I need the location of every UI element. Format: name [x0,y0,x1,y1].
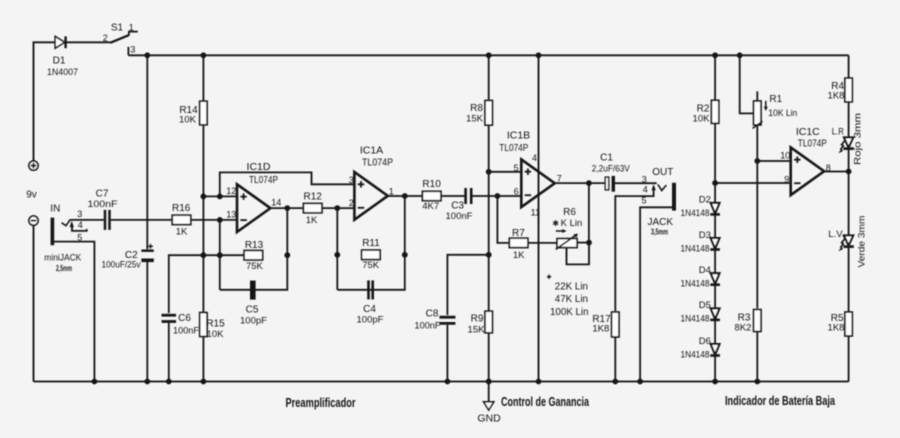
svg-text:R11: R11 [362,238,380,249]
svg-text:C3: C3 [451,201,464,212]
top supply bus wire [128,54,848,56]
svg-text:D1: D1 [53,56,66,67]
svg-text:75K: 75K [246,261,264,272]
svg-text:100nF: 100nF [88,199,118,210]
svg-text:IC1A: IC1A [360,145,383,157]
svg-text:Rojo 3mm: Rojo 3mm [853,113,864,165]
wire out jack pin5 to ground bus [640,207,672,381]
potentiometer R6 [556,234,578,250]
svg-text:C7: C7 [96,189,109,200]
svg-text:1K8: 1K8 [592,324,609,335]
svg-text:TL074P: TL074P [249,174,278,186]
svg-text:1N4148: 1N4148 [681,208,710,218]
wire IC1C output to LED rail [824,171,849,173]
junction C8 on ground bus [445,379,451,385]
junction R1/R3 at IC1C pin 10 [754,158,760,164]
junction R2 at IC1C pin 9 [712,180,718,186]
svg-text:R12: R12 [304,192,323,203]
junction C2 rail on ground bus [144,379,150,385]
svg-text:C8: C8 [426,309,439,320]
LED LV green [838,235,854,251]
svg-text:R8: R8 [470,103,483,114]
svg-text:2,2uF/63V: 2,2uF/63V [592,163,631,174]
capacitor C5 [250,281,256,300]
wire D2 to D3 [714,214,716,239]
wire D3 to D4 [714,249,716,274]
junction GND stub on bus [486,379,492,385]
bias bracket wire to IC1A pin 3 [220,172,355,196]
diode D6 [711,344,720,355]
svg-text:3: 3 [642,174,647,184]
diode D1 [55,36,65,48]
LED LR red [838,137,854,153]
svg-text:Indicador de Batería Baja: Indicador de Batería Baja [725,394,836,408]
diode D2 [711,203,720,214]
svg-text:IN: IN [50,203,60,214]
junction on top bus at IC1B rail [536,52,542,58]
capacitor C1 (polarized) [605,176,615,192]
svg-text:5: 5 [514,163,519,173]
resistor R5 [845,312,852,336]
junction signal to feedback drop [217,217,223,223]
wire D5 to D6 [714,319,716,344]
junction diode chain on ground bus [712,379,718,385]
svg-text:miniJACK: miniJACK [44,253,82,264]
svg-text:8K2: 8K2 [735,323,752,334]
wire +9V rail to C2 [146,55,148,249]
junction R13 right at output drop [284,252,290,258]
resistor R16 [172,215,191,224]
wire IC1A output to R10 [388,195,423,197]
wire D4 to D5 [714,284,716,309]
wire R1 wiper from top bus [740,55,754,113]
wire battery - terminal down to ground bus [33,225,35,381]
feedback drop wire pin2 to R11/C4 [336,208,338,290]
svg-text:GND: GND [477,413,501,425]
switch S1 pin 1 contact [129,32,138,36]
junction pin6 to R7 drop [495,193,501,199]
wire jack pin 3 to C7 [70,219,104,221]
svg-text:D5: D5 [699,300,711,311]
svg-text:TL074P: TL074P [499,142,528,154]
wire IC1B pin 5 from bias rail [489,171,522,173]
svg-text:1K: 1K [176,227,188,238]
resistor R10 [422,191,441,200]
svg-text:D3: D3 [699,230,711,241]
resistor R2 [711,100,718,123]
battery negative terminal [29,216,38,225]
svg-text:C5: C5 [246,305,259,316]
svg-text:1K: 1K [513,250,525,261]
svg-text:100nF: 100nF [173,326,199,337]
diode D5 [711,308,720,319]
resistor R3 [754,310,761,332]
svg-text:R10: R10 [422,179,441,190]
wire R6 wiper loop [567,243,590,265]
junction IC1B rail on ground bus [536,379,542,385]
junction bias rail at IC1B pin 5 [486,169,492,175]
right rail wire from top bus [848,55,850,137]
svg-text:OUT: OUT [652,167,673,178]
wire R12 to IC1A pin 2 [322,207,355,209]
svg-text:7: 7 [557,174,562,184]
wire bias rail from top bus down to R15 [202,55,204,312]
wire C7 to R16 [111,219,173,221]
junction out jack sleeve on ground bus [637,379,643,385]
svg-text:100K Lin: 100K Lin [550,307,589,318]
junction bias rail at C8 branch [486,252,492,258]
svg-text:10K: 10K [693,114,711,125]
resistor R17 [612,312,619,337]
svg-text:100pF: 100pF [240,316,267,327]
capacitor C2 (polarized) [141,244,153,260]
junction R17 on ground bus [612,379,618,385]
svg-text:JACK: JACK [648,217,674,228]
svg-text:TL074P: TL074P [798,138,827,150]
ground bus wire [34,381,849,383]
junction on top bus at C2 rail [144,52,150,58]
svg-text:13: 13 [226,210,236,220]
svg-text:R13: R13 [245,240,264,251]
junction IC1D output [284,205,290,211]
wire IC1D pin 12 from bias rail [203,195,237,197]
wire R7 to potentiometer R6 [528,242,557,244]
junction jack ground on bus [92,379,98,385]
op-amp IC1B power rail from top bus to ground [538,55,540,381]
svg-text:9: 9 [784,175,789,185]
op-amp IC1B [521,159,554,207]
svg-text:6: 6 [514,187,519,197]
svg-text:11: 11 [531,208,540,218]
wire battery + terminal up to D1 anode [34,42,56,161]
svg-text:R15: R15 [206,318,225,329]
resistor R13 [244,251,263,260]
svg-text:R9: R9 [471,314,484,325]
jack pin 4 stub wire [72,227,87,231]
svg-text:1: 1 [129,23,134,33]
junction on top bus at R14 [201,52,207,58]
junction on top bus at R2 [712,52,718,58]
svg-text:TL074P: TL074P [362,157,393,169]
junction R9 rail on ground bus [486,379,492,385]
svg-text:C1: C1 [600,152,613,163]
svg-text:1N4007: 1N4007 [47,67,78,78]
wire D6 to ground bus [714,355,716,382]
junction R6 at output drop [586,240,592,246]
wire IC1B output down to R6 [588,183,590,243]
feedback drop wire pin13 to Vref node and C5 loop [219,220,221,290]
svg-text:R6: R6 [563,207,576,218]
svg-text:3: 3 [77,209,82,219]
junction IC1B output to gain loop [586,180,592,186]
switch S1 pin 3 contact [127,47,129,56]
Vref wire to feedback network [203,254,244,256]
wire R3 to ground bus [756,332,758,382]
svg-text:K Lin: K Lin [561,218,583,229]
svg-text:Control de Ganancia: Control de Ganancia [501,395,590,409]
wire out jack pin4 to R17 [615,190,653,311]
svg-text:22K Lin: 22K Lin [555,281,588,292]
wire R15 to ground bus [202,337,204,382]
svg-text:10K Lin: 10K Lin [768,108,797,119]
svg-text:3: 3 [349,175,354,185]
wire branch to C8 [447,255,488,315]
wire C2 to ground bus [146,262,148,382]
resistor R12 [303,203,322,212]
wire R2 rail from top bus [714,55,716,203]
svg-text:IC1C: IC1C [796,126,820,138]
wire R10 to C3 [441,195,464,197]
svg-text:4K7: 4K7 [422,201,439,212]
svg-text:1N4148: 1N4148 [681,243,710,253]
junction C6 on ground bus [166,379,172,385]
wire IC1C pin 9 input [715,182,791,184]
diode D3 [711,238,720,249]
svg-text:S1: S1 [111,22,124,33]
feedback bottom wire through C4 [337,196,405,290]
svg-text:R7: R7 [512,228,525,239]
resistor R4 [845,78,852,102]
wire IC1D output [270,207,303,209]
svg-text:3: 3 [130,45,135,55]
wire branch to C6 [169,255,204,313]
resistor R11 [362,250,381,259]
wire LED LR to output junction and LED LV [848,150,850,236]
svg-text:D2: D2 [699,195,711,206]
svg-text:75K: 75K [362,260,380,271]
wire R9 to ground bus [488,333,490,382]
wire IC1B output to C1 [555,182,605,184]
capacitor C3 [464,188,467,204]
svg-text:R16: R16 [172,203,191,214]
junction R15 rail on ground bus [201,379,207,385]
adjust arrow for R1 [764,101,768,111]
junction R11 right at output drop [402,252,408,258]
potentiometer R1 [753,91,763,128]
svg-text:D4: D4 [699,265,711,276]
resistor R8 [485,101,492,126]
svg-text:1: 1 [389,186,394,196]
svg-text:R1: R1 [769,94,782,105]
svg-text:Preamplificador: Preamplificador [286,396,356,410]
wire C3 to IC1B pin 6 [472,195,521,197]
junction pin12 to IC1A bias bracket [217,194,223,200]
svg-text:2,5mm: 2,5mm [56,264,72,273]
op-amp IC1D [237,184,270,232]
svg-text:✱: ✱ [552,219,559,228]
diode D4 [711,273,720,284]
svg-text:C6: C6 [178,313,191,324]
wire IC1C pin 10 input [757,160,791,162]
resistor R7 [509,238,527,247]
svg-text:IC1D: IC1D [247,161,271,173]
output connector JACK 3,5mm (OUT) [652,183,677,211]
wire C1 to OUT jack tip [615,182,657,184]
svg-text:15K: 15K [468,325,486,336]
junction R12 output side [334,205,340,211]
wire LED LV down to R5 [848,248,850,312]
resistor R9 [485,311,492,333]
svg-text:4: 4 [532,153,537,163]
junction bias rail at Vref feedback wire [201,252,207,258]
junction bias rail at IC1D pin 12 [201,194,207,200]
svg-text:L.V.: L.V. [828,229,844,240]
op-amp IC1C [791,147,824,195]
svg-text:1N4148: 1N4148 [681,314,710,324]
svg-text:C4: C4 [363,304,376,315]
wire R1 down to R3 [756,125,758,308]
svg-text:1N4148: 1N4148 [681,279,710,289]
svg-text:1K: 1K [306,215,318,226]
capacitor C7 [104,210,107,230]
wire R17 to ground bus [614,337,616,382]
wire R5 to ground bus corner [848,336,850,382]
svg-text:10K: 10K [179,114,197,125]
junction IC1A output [402,193,408,199]
svg-text:12: 12 [226,186,236,196]
wire D1 cathode to switch S1 [66,41,111,43]
capacitor C4 [367,280,374,299]
svg-text:4: 4 [643,185,648,195]
wire bias rail 2 from top bus down to R9 [488,55,490,310]
svg-text:4: 4 [78,220,83,230]
svg-text:1K8: 1K8 [828,90,845,101]
svg-text:1N4148: 1N4148 [681,349,710,359]
junction R11 left [334,252,340,258]
junction on top bus at R8 [486,52,492,58]
svg-text:L.R: L.R [832,127,844,138]
svg-text:100nF: 100nF [446,211,473,222]
junction on top bus at R1 [737,52,743,58]
svg-text:2: 2 [103,33,108,43]
wire C6 to ground bus [168,323,170,382]
resistor R14 [200,101,207,125]
svg-text:✦: ✦ [545,272,553,282]
feedback bottom wire through C5 [220,208,287,290]
resistor R15 [200,313,207,337]
svg-text:15K: 15K [466,114,484,125]
switch S1 lever [110,35,129,43]
svg-text:47K Lin: 47K Lin [555,294,588,305]
wire R16 to IC1D pin 13 [191,219,237,221]
svg-text:1K8: 1K8 [828,323,845,334]
svg-text:10: 10 [780,150,790,160]
junction Vref at feedback drop [217,252,223,258]
wire R6 right terminal [577,242,589,244]
svg-text:100nF: 100nF [415,321,441,332]
wire pin6 down to R7 [497,196,509,243]
capacitor C8 [439,316,455,319]
junction R3 on ground bus [754,379,760,385]
svg-text:10K: 10K [207,329,225,340]
svg-text:100pF: 100pF [357,315,384,326]
svg-text:D6: D6 [699,336,711,347]
svg-text:3,5mm: 3,5mm [651,227,668,236]
capacitor C6 [162,314,177,317]
svg-text:IC1B: IC1B [507,130,530,142]
svg-text:2: 2 [349,198,354,208]
svg-text:9v: 9v [26,190,37,201]
junction IC1C output on LED rail [846,169,852,175]
wire C8 to ground bus [446,325,448,382]
svg-text:Verde 3mm: Verde 3mm [857,215,868,267]
ground symbol GND [484,382,494,411]
op-amp IC1A [354,172,387,220]
battery positive terminal [29,161,38,170]
svg-text:14: 14 [271,197,281,207]
wire jack pin 5 to ground bus [54,242,95,382]
adjust arrow for R6 [556,229,567,233]
input connector miniJACK (IN) [51,218,74,246]
svg-text:100uF/25v: 100uF/25v [102,259,141,270]
